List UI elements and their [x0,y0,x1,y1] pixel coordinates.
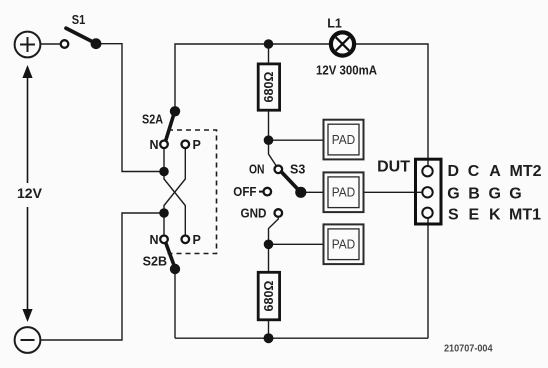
svg-text:K: K [489,206,501,223]
wire node down to S3 ON contact [269,140,277,165]
svg-text:G: G [489,185,501,202]
svg-text:680Ω: 680Ω [262,72,276,103]
switch S2B [160,236,189,275]
svg-text:ON: ON [249,163,265,177]
wire R2 to bottom rail [268,320,270,339]
switch S2A [160,106,189,148]
pin labels row 2: G B G G [447,185,521,202]
lamp L1 [331,32,354,55]
svg-text:12V 300mA: 12V 300mA [316,64,377,78]
svg-text:N: N [149,233,158,247]
svg-text:DUT: DUT [377,158,410,175]
svg-text:L1: L1 [327,17,342,31]
svg-text:N: N [149,138,158,152]
pin labels row 3: S E K MT1 [448,206,541,223]
wire bottom rail [175,337,428,339]
svg-text:D: D [448,163,460,180]
wire node down to resistor R2 [268,244,270,272]
wire S3 GND contact down to lower node [269,218,279,245]
svg-text:GND: GND [241,206,267,220]
battery positive terminal [15,32,41,58]
junction lower S2 node [159,208,169,218]
wire R1 to PAD node [268,110,270,140]
svg-text:PAD: PAD [332,133,356,147]
mechanical coupling dashed box [166,130,217,254]
svg-text:680Ω: 680Ω [262,281,276,312]
svg-text:PAD: PAD [332,186,356,200]
svg-text:12V: 12V [17,186,42,201]
resistor R1 680 ohm [258,64,279,110]
resistor R2 680 ohm [258,272,279,320]
pad PAD3 [324,224,364,264]
wire S2B pivot down to bottom rail [174,269,176,338]
svg-text:OFF: OFF [233,185,257,199]
svg-text:P: P [193,233,201,247]
wire battery plus to S1 [41,43,61,45]
pin labels row 1: D C A MT2 [448,163,542,180]
pad PAD1 [324,120,364,160]
pin 2 [422,187,432,197]
junction GND node [264,240,274,250]
wire battery minus to S2 lower junction [41,213,164,340]
switch S3 [259,166,306,217]
svg-text:G: G [509,185,521,202]
switch S1 [61,28,102,49]
wire node to PAD3 [269,243,324,245]
junction R1 bottom node [264,135,274,145]
svg-text:B: B [468,185,480,202]
wire S2A N contact to upper junction and crossover to S2B P [164,149,185,235]
junction upper S2 node [159,167,169,177]
svg-text:C: C [468,163,480,180]
battery negative terminal [15,327,41,353]
wire DUT bottom to bottom rail [427,218,429,338]
svg-text:E: E [469,206,480,223]
svg-text:S2B: S2B [143,255,167,269]
junction S1 output node [264,39,274,49]
pin 3 [422,208,432,218]
svg-text:A: A [489,163,501,180]
wire PAD2 to DUT middle pin [364,191,424,193]
wire S1 output down to S2 N junction [96,44,163,172]
svg-text:MT2: MT2 [510,163,542,180]
connector DUT [416,159,442,224]
junction bottom rail node [264,333,274,343]
svg-text:S: S [448,206,459,223]
svg-text:S1: S1 [72,13,86,27]
12V supply arrow [22,65,32,322]
wire S3 common to PAD2 [301,191,324,193]
svg-text:PAD: PAD [332,238,356,252]
svg-text:210707-004: 210707-004 [444,343,493,354]
svg-text:MT1: MT1 [509,206,541,223]
svg-text:P: P [193,138,201,152]
svg-text:G: G [447,185,459,202]
wire top rail to resistor R1 [268,44,270,64]
pin 1 [422,166,432,176]
svg-text:S2A: S2A [142,113,163,127]
pad PAD2 [324,172,364,212]
svg-text:S3: S3 [290,163,305,177]
wire top rail from S2A pivot to lamp and right edge down to DUT [175,44,428,166]
wire S2A P contact crossover to S2B N contact [164,149,185,235]
wire node to PAD1 [269,139,324,141]
